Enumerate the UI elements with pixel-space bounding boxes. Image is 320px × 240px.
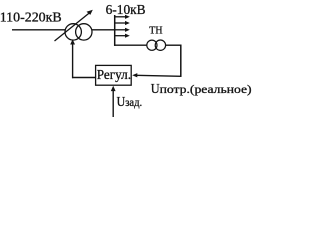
wire control vertical up [72, 44, 74, 79]
control arrowhead at transformer [70, 39, 75, 44]
tap-changer diagonal arrow through T1 [55, 10, 93, 41]
wire T1 to bus [92, 29, 116, 31]
bus 6-10kV (vertical) [114, 15, 116, 46]
feeder arrow 3 [115, 28, 130, 32]
wire measured voltage into regulator (arrow pointing left) [132, 73, 181, 77]
voltage transformer TH (two overlapping circles) [147, 40, 166, 50]
feeder arrow 2 [115, 21, 130, 25]
wire right vertical drop [180, 45, 182, 77]
svg-text:Uпотр.(реальное): Uпотр.(реальное) [151, 81, 252, 96]
svg-text:Регул.: Регул. [97, 68, 131, 83]
regulator box [96, 65, 132, 85]
wire HV incoming line [12, 29, 66, 31]
transformer T1 (two overlapping circles, on-load tap changer) [65, 24, 92, 40]
svg-text:ТН: ТН [149, 25, 162, 37]
svg-text:110-220кВ: 110-220кВ [0, 10, 62, 25]
wire bus to TH [114, 44, 147, 46]
wire TH to right corner [166, 44, 182, 46]
svg-text:6-10кВ: 6-10кВ [106, 2, 146, 17]
svg-text:Uзад.: Uзад. [117, 95, 143, 110]
feeder arrow 1 [115, 15, 130, 19]
feeder arrow 4 [115, 34, 130, 38]
wire regulator output left [72, 77, 96, 79]
setpoint arrow into regulator bottom [111, 86, 116, 117]
